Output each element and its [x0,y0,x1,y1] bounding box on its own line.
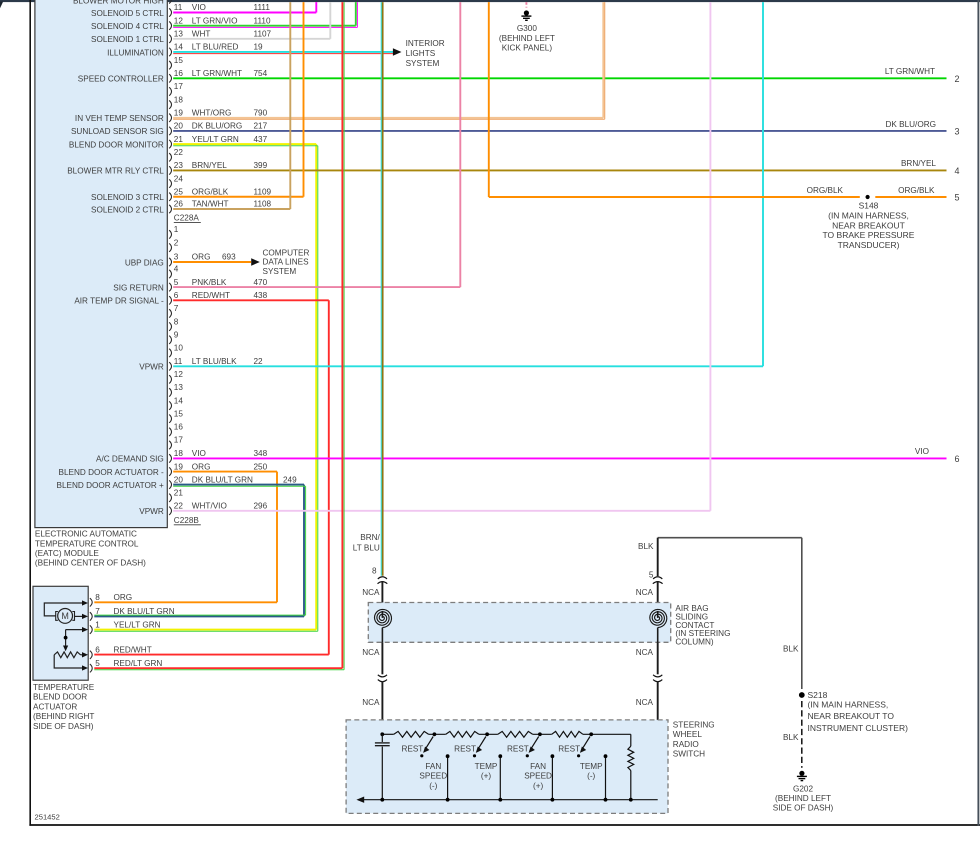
svg-text:19: 19 [174,108,184,117]
svg-text:8: 8 [174,317,179,326]
svg-text:LT GRN/WHT: LT GRN/WHT [192,69,242,78]
switch lever at 539.9 [532,737,539,748]
resistor R4 [552,731,583,737]
C228B pin 16 row [169,428,171,436]
svg-text:22: 22 [174,148,184,157]
resistor R2 [446,731,479,737]
svg-text:TEMPERATURE: TEMPERATURE [33,683,95,692]
C228B pin 6 row [169,296,171,304]
C228A pin 23 row [169,166,171,174]
svg-text:BLOWER MTR RLY CTRL: BLOWER MTR RLY CTRL [67,167,164,176]
splice S148 wire ORG/BLK [488,2,490,197]
svg-text:(BEHIND CENTER OF DASH): (BEHIND CENTER OF DASH) [35,559,146,568]
diagram left border [29,0,31,826]
throw contact dropper at 500.3 [499,756,501,800]
throw contact dropper at 447.6 [447,756,449,800]
top toolbar bar [0,0,980,2]
svg-text:21: 21 [174,489,184,498]
wire through right spiral [657,611,659,618]
wire PNK/BLK dashed to G300 [525,2,527,8]
svg-text:(BEHIND LEFT: (BEHIND LEFT [775,794,831,803]
svg-text:ORG/BLK: ORG/BLK [898,186,935,195]
svg-text:12: 12 [174,16,184,25]
svg-text:ORG/BLK: ORG/BLK [192,187,229,196]
wire RED/LT GRN vertical [341,2,343,668]
svg-text:4: 4 [174,265,179,274]
svg-text:G202: G202 [793,784,813,793]
arrow to computer data lines system [251,258,260,266]
svg-text:G300: G300 [517,24,537,33]
C228A pin 25 row [169,193,171,201]
diagram right border [977,0,979,826]
wire ORG 250 pin 19 [173,471,277,473]
wire YEL/LT GRN stripe [173,145,318,147]
ground G300 [521,10,531,20]
steering wheel radio switch box [346,720,668,814]
svg-text:6: 6 [174,291,179,300]
wire PNK/BLK 470 pin 5 [173,286,460,288]
wire DK BLU/ORG 217 pin 20 [173,130,946,132]
C228A pin 11 row [169,8,171,16]
actuator wire RED/LT GRN pin 5 [94,667,342,669]
svg-text:SOLENOID 3 CTRL: SOLENOID 3 CTRL [91,193,164,202]
svg-text:LT GRN/WHT: LT GRN/WHT [885,67,935,76]
svg-text:17: 17 [174,82,184,91]
svg-text:19: 19 [174,462,184,471]
C228B pin 11 row [169,362,171,370]
svg-text:3: 3 [954,127,959,137]
svg-text:ORG: ORG [114,593,133,602]
switch lever at 434.4 [426,737,433,748]
svg-text:6: 6 [954,454,959,464]
svg-text:RADIO: RADIO [673,740,699,749]
svg-text:REST: REST [507,745,529,754]
svg-text:DK BLU/LT GRN: DK BLU/LT GRN [192,475,253,484]
motor wire to pin 7 [75,615,85,617]
svg-text:18: 18 [174,95,184,104]
pin 10 arc (clipped) [169,0,171,4]
bottom bus [358,799,658,801]
throw contact dropper at 552.4 [551,756,553,800]
resistor R3 [498,731,533,737]
C228B pin 21 row [169,494,171,502]
actuator pin arcs and numbers [90,598,92,606]
top resistor rail [382,733,394,735]
svg-text:VPWR: VPWR [139,507,164,516]
motor brackets [56,612,58,621]
svg-text:BLEND DOOR ACTUATOR -: BLEND DOOR ACTUATOR - [59,468,165,477]
svg-text:BLEND DOOR: BLEND DOOR [33,693,87,702]
svg-text:RED/LT GRN: RED/LT GRN [114,659,163,668]
svg-text:14: 14 [174,43,184,52]
svg-text:ELECTRONIC AUTOMATIC: ELECTRONIC AUTOMATIC [35,530,137,539]
C228B pin 8 row [169,322,171,330]
EATC module box [35,0,167,528]
svg-text:ORG/BLK: ORG/BLK [807,186,844,195]
svg-text:5: 5 [954,193,959,203]
svg-text:437: 437 [254,135,268,144]
wire ORG 693 pin 3 [173,261,251,263]
clockspring spiral right [650,609,667,627]
svg-text:24: 24 [174,174,184,183]
svg-text:5: 5 [174,278,179,287]
inline connector (pin 8) [378,577,388,584]
svg-text:UBP DIAG: UBP DIAG [125,258,164,267]
svg-text:22: 22 [174,502,184,511]
svg-text:26: 26 [174,200,184,209]
C228B pin 3 row [169,258,171,266]
svg-text:22: 22 [254,357,264,366]
svg-text:DATA LINES: DATA LINES [263,258,310,267]
svg-text:BRN/YEL: BRN/YEL [192,161,227,170]
svg-text:NCA: NCA [362,648,380,657]
actuator wire ORG pin 8 [94,601,277,603]
wiper vertical and junction [65,630,67,647]
svg-text:6: 6 [95,646,100,655]
svg-text:12: 12 [174,370,184,379]
black wire right top horizontal [658,537,802,539]
svg-text:(+): (+) [481,772,492,781]
wire BRN/LT BLU vertical (brown) [382,2,384,576]
potentiometer R-pot [54,652,80,658]
svg-text:20: 20 [174,475,184,484]
C228B pin 19 row [169,467,171,475]
svg-text:8: 8 [95,593,100,602]
C228B pin 1 row [169,230,171,238]
wire BRN/YEL 399 pin 23 [173,169,946,171]
down arrow to potentiometer [63,646,68,652]
svg-text:SYSTEM: SYSTEM [406,59,440,68]
capacitor C1 on left leg [381,734,383,742]
wire through left spiral [381,611,383,618]
svg-text:SOLENOID 4 CTRL: SOLENOID 4 CTRL [91,22,164,31]
svg-text:790: 790 [254,108,268,117]
svg-text:VIO: VIO [192,3,206,12]
svg-text:WHT/VIO: WHT/VIO [192,502,227,511]
wire LT GRN/WHT 754 pin 16 [173,77,946,79]
svg-text:S148: S148 [859,201,879,211]
svg-text:M: M [61,611,69,621]
svg-text:19: 19 [254,43,264,52]
svg-text:TAN/WHT: TAN/WHT [192,200,229,209]
wire LT BLU/RED stripe [173,53,394,55]
svg-text:693: 693 [222,253,236,262]
svg-text:1: 1 [95,620,100,629]
motor M1 circle [58,609,73,624]
diagram bottom border [29,824,980,826]
black wire to S218 [801,538,803,689]
ground G202 [797,771,807,781]
C228A pin 26 row [169,205,171,213]
wire DK BLU/LT GRN stripe [173,485,305,487]
svg-text:RED/WHT: RED/WHT [192,291,230,300]
svg-text:TO BRAKE PRESSURE: TO BRAKE PRESSURE [823,230,915,240]
C228B pin 22 row [169,507,171,515]
svg-text:8: 8 [372,566,377,575]
wire WHT/VIO 296 pin 22 [173,510,710,512]
svg-text:SOLENOID 2 CTRL: SOLENOID 2 CTRL [91,205,164,214]
svg-text:LIGHTS: LIGHTS [406,49,436,58]
svg-text:INTERIOR: INTERIOR [406,39,445,48]
svg-text:ILLUMINATION: ILLUMINATION [107,48,164,57]
throw contact dropper at 605.5 [605,756,607,800]
svg-text:10: 10 [174,344,184,353]
svg-text:(-): (-) [587,772,595,781]
wire RED/LT GRN stripe [343,2,345,670]
black wire right (airbag) [657,538,659,576]
svg-text:VIO: VIO [915,447,929,456]
svg-text:2: 2 [174,238,179,247]
actuator wire YEL/LT GRN pin 1 [94,629,316,631]
svg-text:ORG: ORG [192,462,211,471]
C228B pin 17 row [169,441,171,449]
svg-text:23: 23 [174,161,184,170]
wire RED/WHT 438 pin 6 [173,299,329,301]
svg-text:4: 4 [954,166,959,176]
svg-text:3: 3 [174,253,179,262]
temperature blend door actuator box [33,586,88,680]
pot left end to pin 5 [54,655,84,668]
splice S148 [866,195,870,199]
svg-text:WHT: WHT [192,30,211,39]
svg-text:COMPUTER: COMPUTER [263,248,310,257]
C228B pin 20 row [169,480,171,488]
svg-text:INSTRUMENT CLUSTER): INSTRUMENT CLUSTER) [808,723,909,733]
svg-text:SUNLOAD SENSOR SIG: SUNLOAD SENSOR SIG [71,127,164,136]
svg-text:15: 15 [174,409,184,418]
wire DK BLU/LT GRN 249 pin 20 [173,484,304,486]
wire WHT/ORG 790 pin 19 [173,117,603,119]
svg-text:NEAR BREAKOUT TO: NEAR BREAKOUT TO [808,711,895,721]
svg-text:SIDE OF DASH): SIDE OF DASH) [33,722,94,731]
C228A pin 18 row [169,100,171,108]
inline connector NCA left [378,675,387,682]
switch lever at 591.2 [583,737,590,748]
svg-text:1109: 1109 [254,187,272,196]
svg-text:BLK: BLK [783,644,799,653]
svg-text:BLK: BLK [638,542,654,551]
switch lever at 487.1 [479,737,486,748]
C228A pin 21 row [169,140,171,148]
motor loop wire to pin 8 [44,603,84,616]
svg-text:KICK PANEL): KICK PANEL) [502,44,553,53]
svg-text:15: 15 [174,56,184,65]
wire VIO 348 pin 18 [173,457,946,459]
C228B pin 15 row [169,415,171,423]
svg-text:1: 1 [174,225,179,234]
svg-text:13: 13 [174,383,184,392]
svg-text:SWITCH: SWITCH [673,750,705,759]
actuator wire RED/WHT pin 6 [94,654,328,656]
svg-text:VPWR: VPWR [139,363,164,372]
svg-text:SPEED: SPEED [419,772,447,781]
wire TAN/WHT 1108 pin 26 [173,208,290,210]
svg-text:25: 25 [174,187,184,196]
wire WHT 1107 pin 13 [173,38,330,40]
svg-text:NCA: NCA [636,648,654,657]
svg-text:NCA: NCA [636,698,654,707]
svg-text:BLK: BLK [783,733,799,742]
svg-text:(-): (-) [429,781,437,790]
svg-text:RED/WHT: RED/WHT [114,646,152,655]
top-left corner notch [0,2,3,9]
svg-text:SOLENOID 5 CTRL: SOLENOID 5 CTRL [91,9,164,18]
svg-text:BLEND DOOR ACTUATOR +: BLEND DOOR ACTUATOR + [57,481,165,490]
svg-text:LT GRN/VIO: LT GRN/VIO [192,16,238,25]
C228A pin 16 row [169,74,171,82]
junction in actuator [64,636,68,640]
clockspring spiral left [374,609,391,627]
svg-text:S218: S218 [808,690,828,700]
air bag sliding contact box [368,603,670,643]
svg-text:16: 16 [174,69,184,78]
svg-text:FAN: FAN [425,762,441,771]
svg-text:13: 13 [174,30,184,39]
bus junction dots [380,798,384,802]
svg-text:348: 348 [254,449,268,458]
right wire below airbag box [657,642,659,674]
svg-text:TEMPERATURE CONTROL: TEMPERATURE CONTROL [35,539,139,548]
svg-text:DK BLU/ORG: DK BLU/ORG [885,120,936,129]
svg-text:YEL/LT GRN: YEL/LT GRN [114,620,161,629]
C228B pin 13 row [169,388,171,396]
svg-text:NCA: NCA [362,698,380,707]
svg-text:NCA: NCA [362,588,380,597]
svg-text:STEERING: STEERING [673,720,715,729]
wire VIO 1111 pin 11 [173,12,316,14]
wire LT BLU/RED 19 pin 14 [173,51,394,53]
C228A pin 17 row [169,87,171,95]
svg-text:NCA: NCA [636,588,654,597]
svg-text:SPEED CONTROLLER: SPEED CONTROLLER [78,75,164,84]
wire WHT/ORG stripe [173,118,605,120]
svg-text:438: 438 [254,291,268,300]
C228B pin 5 row [169,283,171,291]
wire LT BLU/BLK 22 pin 11 [173,365,763,367]
svg-text:5: 5 [95,659,100,668]
svg-text:A/C DEMAND SIG: A/C DEMAND SIG [96,455,164,464]
dashed BLK wire to G202 [801,701,803,768]
svg-text:1108: 1108 [254,200,272,209]
svg-text:PNK/BLK: PNK/BLK [192,278,227,287]
svg-text:WHEEL: WHEEL [673,730,703,739]
wire ORG/BLK 1109 pin 25 [173,196,303,198]
svg-text:470: 470 [254,278,268,287]
svg-text:C228B: C228B [174,516,200,525]
svg-text:NEAR BREAKOUT: NEAR BREAKOUT [832,220,905,230]
C228A pin 19 row [169,114,171,122]
svg-text:11: 11 [174,3,183,12]
C228B pin 9 row [169,336,171,344]
svg-text:ACTUATOR: ACTUATOR [33,702,77,711]
C228A pin 20 row [169,127,171,135]
svg-text:1111: 1111 [254,3,271,12]
wire YEL/LT GRN 437 pin 21 [173,143,316,145]
svg-text:TRANSDUCER): TRANSDUCER) [838,240,900,250]
wire LT GRN/VIO 1110 pin 12 [173,25,356,27]
inline connector NCA right [653,675,662,682]
svg-text:REST: REST [401,745,423,754]
svg-text:IN VEH TEMP SENSOR: IN VEH TEMP SENSOR [75,114,164,123]
svg-text:17: 17 [174,436,184,445]
svg-text:ORG: ORG [192,253,211,262]
svg-text:AIR TEMP DR SIGNAL -: AIR TEMP DR SIGNAL - [74,297,164,306]
left wire below airbag box [381,642,383,674]
resistor R1 [394,731,429,737]
svg-text:BRN/: BRN/ [360,533,380,542]
svg-text:SOLENOID 1 CTRL: SOLENOID 1 CTRL [91,35,164,44]
svg-text:296: 296 [254,502,268,511]
svg-text:1107: 1107 [254,30,272,39]
C228B pin 4 row [169,270,171,278]
rail junction dots [380,732,384,736]
C228B pin 14 row [169,401,171,409]
svg-text:(IN MAIN HARNESS,: (IN MAIN HARNESS, [828,211,909,221]
svg-text:WHT/ORG: WHT/ORG [192,108,232,117]
wire LT GRN/VIO stripe [173,26,357,28]
C228A pin 24 row [169,179,171,187]
svg-text:TEMP: TEMP [475,762,498,771]
C228A pin 13 row [169,35,171,43]
svg-text:20: 20 [174,122,184,131]
svg-text:14: 14 [174,396,184,405]
right vertical resistor R5 [630,734,632,746]
actuator wire DK BLU/LT GRN pin 7 [94,615,304,617]
C228A pin 14 row [169,48,171,56]
C228B pin 10 row [169,349,171,357]
svg-text:SPEED: SPEED [524,772,552,781]
svg-text:YEL/LT GRN: YEL/LT GRN [192,135,239,144]
svg-text:(BEHIND LEFT: (BEHIND LEFT [499,34,555,43]
C228B pin 12 row [169,375,171,383]
svg-text:SYSTEM: SYSTEM [263,267,297,276]
svg-text:1110: 1110 [254,16,271,25]
wire BRN/LT BLU stripe (lt blu) [380,2,382,576]
svg-text:SIDE OF DASH): SIDE OF DASH) [773,804,834,813]
svg-text:C228A: C228A [174,214,200,223]
svg-text:250: 250 [254,462,268,471]
C228A pin 12 row [169,21,171,29]
svg-text:217: 217 [254,122,268,131]
svg-text:BLOWER MOTOR HIGH: BLOWER MOTOR HIGH [73,0,164,5]
svg-text:REST: REST [558,745,580,754]
svg-text:REST: REST [454,745,476,754]
svg-text:TEMP: TEMP [580,762,603,771]
C228B pin 2 row [169,243,171,251]
svg-text:(EATC) MODULE: (EATC) MODULE [35,549,100,558]
C228B pin 7 row [169,309,171,317]
svg-text:LT BLU/BLK: LT BLU/BLK [192,357,237,366]
svg-text:11: 11 [174,357,183,366]
svg-text:COLUMN): COLUMN) [675,637,713,646]
svg-text:(BEHIND RIGHT: (BEHIND RIGHT [33,712,94,721]
splice S218 [799,692,805,698]
svg-text:(+): (+) [533,781,544,790]
arrow to interior lights system [393,48,402,56]
svg-text:21: 21 [174,135,184,144]
svg-text:(IN MAIN HARNESS,: (IN MAIN HARNESS, [808,700,889,710]
svg-text:2: 2 [954,74,959,84]
C228B pin 18 row [169,454,171,462]
svg-text:16: 16 [174,423,184,432]
svg-text:BRN/YEL: BRN/YEL [901,159,936,168]
svg-text:18: 18 [174,449,184,458]
svg-text:BLEND DOOR MONITOR: BLEND DOOR MONITOR [69,140,164,149]
svg-text:FAN: FAN [530,762,546,771]
svg-text:VIO: VIO [192,449,206,458]
svg-text:399: 399 [254,161,268,170]
svg-text:LT BLU/RED: LT BLU/RED [192,43,239,52]
